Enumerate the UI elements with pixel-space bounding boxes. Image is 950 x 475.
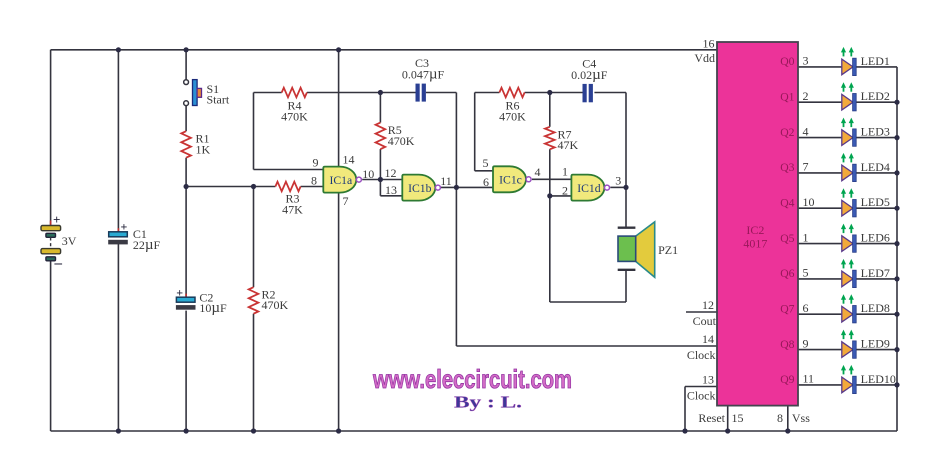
svg-text:LED1: LED1	[861, 54, 890, 68]
wire: battery negative to ground rail	[50, 261, 52, 431]
node: ground / C2	[184, 428, 189, 433]
wire: Q1 output to LED2	[798, 101, 842, 103]
svg-text:Cout: Cout	[693, 314, 717, 328]
node: cathode rail / LED9	[894, 347, 899, 352]
svg-text:13: 13	[702, 373, 714, 387]
resistor R7 47K	[545, 127, 555, 150]
svg-text:IC1a: IC1a	[329, 174, 353, 187]
svg-text:6: 6	[803, 301, 809, 315]
svg-text:Clock: Clock	[687, 389, 716, 403]
node: pin3 / C4 riser	[623, 185, 628, 190]
op-amp gate IC1d	[571, 175, 609, 201]
svg-text:470K: 470K	[388, 134, 415, 148]
node: cathode rail / LED2	[894, 100, 899, 105]
svg-text:+: +	[53, 212, 60, 227]
node: ground / reset	[725, 428, 730, 433]
wire: clock line to IC2 pin 14	[456, 345, 717, 347]
svg-text:470K: 470K	[499, 109, 526, 123]
node: ground / pin7	[336, 428, 341, 433]
wire: R4 feedback riser to pin 9	[253, 93, 255, 170]
wire: C4 right riser	[594, 92, 626, 94]
wire: node A to IC1a pin 8	[186, 186, 275, 188]
svg-text:12: 12	[702, 298, 714, 312]
op-amp gate IC1c	[493, 166, 531, 192]
wire: Q9 output to LED10	[798, 384, 842, 386]
node A: R1/C2/pin8	[184, 184, 189, 189]
svg-text:–: –	[54, 256, 63, 272]
node: ground / R2	[251, 428, 256, 433]
wire: IC1c output pin 4 to IC1d pin 1	[532, 178, 572, 180]
svg-text:47K: 47K	[282, 202, 303, 216]
switch S1	[184, 80, 202, 106]
wire: IC1d output pin 3	[610, 186, 626, 188]
wire: IC1d pin 2 stub	[550, 195, 572, 197]
wire: Q7 output to LED8	[798, 313, 842, 315]
svg-text:5: 5	[803, 266, 809, 280]
wire: IC1c pin 5 riser	[474, 93, 476, 171]
svg-text:12: 12	[385, 166, 397, 180]
LED3	[841, 118, 856, 147]
wire: R5 branch	[379, 93, 381, 123]
svg-text:LED7: LED7	[861, 266, 890, 280]
svg-text:PZ1: PZ1	[658, 243, 678, 257]
svg-text:2: 2	[803, 89, 809, 103]
svg-text:16: 16	[703, 36, 715, 50]
svg-text:7: 7	[803, 160, 809, 174]
svg-text:470K: 470K	[281, 109, 308, 123]
svg-text:LED3: LED3	[861, 125, 890, 139]
svg-text:IC1d: IC1d	[577, 182, 601, 195]
IC U2: 4017 counter body	[717, 42, 798, 406]
svg-text:8: 8	[311, 174, 317, 188]
node: ground / pin13	[682, 428, 687, 433]
svg-text:3: 3	[803, 54, 809, 68]
wire: IC1a pin 14 riser	[338, 50, 340, 167]
svg-text:By : L.: By : L.	[454, 393, 522, 412]
svg-text:Q7: Q7	[780, 302, 794, 315]
node: R4/R5/C3	[378, 90, 383, 95]
svg-text:LED4: LED4	[861, 160, 890, 174]
node: ground / Vss	[785, 428, 790, 433]
wire: R7 branch	[549, 93, 551, 127]
wire: battery positive riser	[50, 50, 52, 226]
node: cathode rail / LED10	[894, 382, 899, 387]
resistor R1 1K	[181, 131, 191, 158]
svg-text:Reset: Reset	[698, 411, 725, 425]
node: top rail / pin14	[336, 47, 341, 52]
svg-text:Q8: Q8	[780, 338, 794, 351]
svg-text:Vss: Vss	[792, 411, 810, 425]
piezo speaker PZ1	[618, 222, 655, 277]
wire: Q4 output to LED5	[798, 207, 842, 209]
wire: S1 to R1	[185, 105, 187, 131]
svg-text:1: 1	[562, 165, 568, 179]
svg-text:Q2: Q2	[780, 126, 794, 139]
wire: Q5 output to LED6	[798, 243, 842, 245]
wire: IC1b output pin 11 to IC1c pin 6	[440, 186, 493, 188]
svg-text:0.047µF: 0.047µF	[402, 67, 445, 83]
svg-text:11: 11	[440, 174, 452, 188]
wire: Q2 output to LED3	[798, 137, 842, 139]
wire: IC1b pin 13 tie	[379, 180, 381, 196]
svg-text:13: 13	[385, 183, 397, 197]
svg-text:+: +	[121, 220, 128, 234]
LED2	[841, 82, 856, 111]
svg-text:www.eleccircuit.com: www.eleccircuit.com	[372, 364, 572, 394]
wire: Vss pin 8 stub	[787, 406, 789, 431]
wire: IC1a pin 7 riser	[338, 192, 340, 431]
capacitor C3 0.047uF	[416, 84, 426, 102]
svg-text:Start: Start	[207, 93, 230, 107]
svg-text:7: 7	[343, 194, 349, 208]
LED5	[841, 188, 856, 217]
wire: R2 branch	[253, 187, 255, 288]
svg-text:IC2: IC2	[746, 223, 764, 237]
wire: R1 to node A	[185, 158, 187, 187]
node: R2 branch	[251, 184, 256, 189]
capacitor C4 0.02uF	[583, 84, 593, 102]
svg-text:LED6: LED6	[861, 231, 890, 245]
svg-text:IC1c: IC1c	[499, 174, 522, 187]
svg-text:4: 4	[803, 124, 809, 138]
wire: PZ1 bottom return loop	[625, 270, 627, 302]
svg-text:Q3: Q3	[780, 161, 794, 174]
svg-text:Q4: Q4	[780, 196, 794, 209]
svg-text:Vdd: Vdd	[694, 51, 715, 65]
wire: C1 bottom riser	[117, 244, 119, 431]
wire: Q3 output to LED4	[798, 172, 842, 174]
svg-text:11: 11	[803, 372, 815, 386]
LED6	[841, 224, 856, 253]
svg-text:6: 6	[483, 175, 489, 189]
node: cathode rail / LED7	[894, 276, 899, 281]
node: R7 / pin2	[547, 193, 552, 198]
svg-text:10: 10	[362, 167, 374, 181]
svg-text:9: 9	[313, 155, 319, 169]
svg-text:22µF: 22µF	[133, 237, 161, 253]
LED10	[841, 365, 856, 394]
node: cathode rail / LED4	[894, 170, 899, 175]
wire: bottom ground rail	[51, 430, 897, 432]
wire: C1 top riser	[117, 50, 119, 232]
svg-text:470K: 470K	[262, 298, 289, 312]
wire: LED cathode rail	[896, 67, 898, 431]
svg-text:9: 9	[803, 336, 809, 350]
svg-text:Clock: Clock	[687, 348, 716, 362]
wire: S1 top branch	[185, 50, 187, 80]
resistor R4 470K	[282, 88, 307, 98]
node: cathode rail / LED6	[894, 241, 899, 246]
svg-text:LED8: LED8	[861, 301, 890, 315]
svg-text:LED2: LED2	[861, 89, 890, 103]
wire: R4 net to C3	[254, 92, 282, 94]
svg-text:Q0: Q0	[780, 55, 794, 68]
resistor R3 47K	[275, 182, 300, 192]
resistor R5 470K	[376, 123, 386, 150]
svg-text:LED5: LED5	[861, 195, 890, 209]
node: C3 riser / pin11	[454, 185, 459, 190]
svg-text:Q6: Q6	[780, 267, 794, 280]
svg-text:14: 14	[343, 153, 355, 167]
battery BT1 3V	[41, 212, 63, 271]
svg-text:LED9: LED9	[861, 337, 890, 351]
svg-text:4: 4	[535, 165, 541, 179]
svg-text:3: 3	[615, 174, 621, 188]
svg-text:4017: 4017	[743, 237, 767, 251]
svg-text:Q5: Q5	[780, 232, 794, 245]
LED9	[841, 330, 856, 359]
op-amp gate IC1b	[402, 175, 440, 201]
svg-text:14: 14	[702, 332, 714, 346]
LED8	[841, 294, 856, 323]
capacitor C1 22uF	[109, 220, 128, 244]
op-amp gate IC1a	[323, 167, 361, 193]
wire: Q6 output to LED7	[798, 278, 842, 280]
node: cathode rail / LED3	[894, 135, 899, 140]
wire: Cout pin 12 stub	[686, 311, 717, 313]
node: top rail / S1	[184, 47, 189, 52]
svg-text:1: 1	[803, 230, 809, 244]
LED7	[841, 259, 856, 288]
wire: PZ1 top lead	[625, 187, 627, 227]
LED4	[841, 153, 856, 182]
wire: C2 riser	[185, 187, 187, 298]
node: R6/R7/C4	[547, 90, 552, 95]
svg-text:+: +	[176, 286, 183, 300]
svg-text:10: 10	[803, 195, 815, 209]
svg-text:IC1b: IC1b	[408, 182, 432, 195]
wire: clock pin 13 ground tie	[685, 386, 717, 388]
node: cathode rail / LED5	[894, 206, 899, 211]
svg-text:LED10: LED10	[861, 372, 896, 386]
node: cathode rail / LED8	[894, 312, 899, 317]
svg-text:5: 5	[483, 156, 489, 170]
capacitor C2 10uF	[176, 286, 195, 310]
svg-text:10µF: 10µF	[199, 300, 227, 316]
node: R5/IC1a out	[378, 177, 383, 182]
wire: Q0 output to LED1	[798, 66, 842, 68]
wire: C3 right to clock riser	[426, 92, 457, 94]
svg-text:0.02µF: 0.02µF	[571, 67, 608, 83]
LED1	[841, 47, 856, 76]
node: top rail / C1	[116, 47, 121, 52]
svg-text:Q1: Q1	[780, 90, 794, 103]
wire: reset pin 15 stub	[727, 406, 729, 431]
resistor R2 470K	[249, 287, 259, 313]
svg-text:Q9: Q9	[780, 373, 794, 386]
svg-text:3V: 3V	[62, 234, 77, 248]
svg-text:1K: 1K	[196, 142, 211, 156]
wire: Q8 output to LED9	[798, 349, 842, 351]
resistor R6 470K	[499, 88, 524, 98]
svg-text:2: 2	[562, 184, 568, 198]
wire: top supply rail	[51, 49, 717, 51]
wire: R6 net to C4	[475, 92, 500, 94]
svg-text:47K: 47K	[558, 138, 579, 152]
node: ground / C1	[116, 428, 121, 433]
svg-text:15: 15	[732, 411, 744, 425]
svg-text:8: 8	[777, 411, 783, 425]
wire: IC1a output pin 10 to IC1b pin 12	[362, 179, 402, 181]
